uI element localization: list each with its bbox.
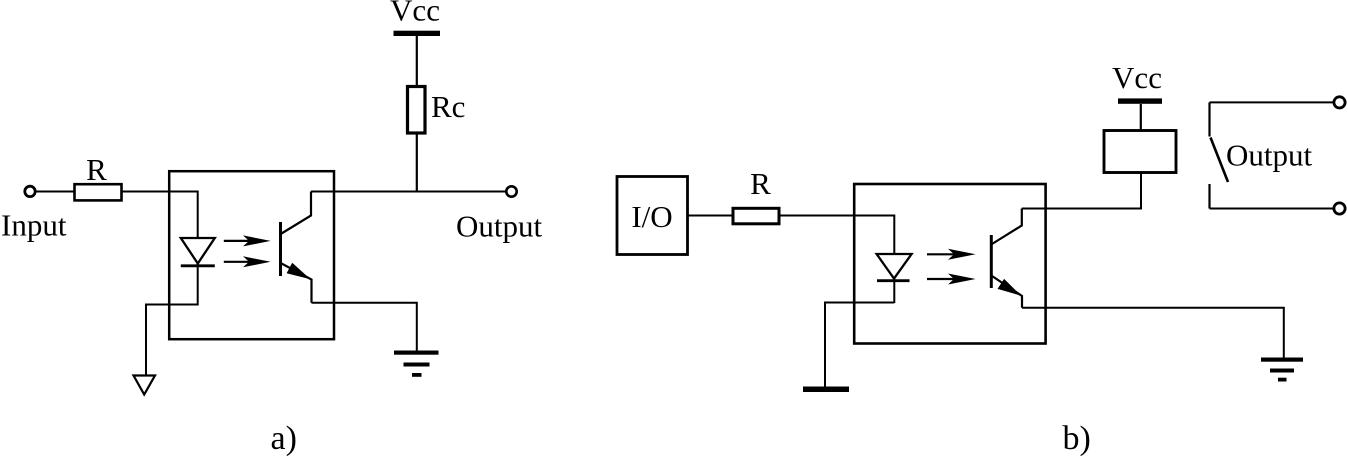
optocoupler U1 package box (circuit a) — [169, 171, 334, 339]
power rail Vcc bar (circuit a) — [394, 31, 441, 36]
power rail Vcc bar (circuit b) — [1118, 98, 1162, 103]
phototransistor Q1 (circuit a) — [281, 192, 312, 303]
phototransistor Q2 (circuit b) — [991, 209, 1022, 308]
wire: Vcc bar to relay coil — [1140, 104, 1142, 131]
svg-text:R: R — [86, 152, 107, 187]
wire: box entry to LED anode (circuit a) — [169, 192, 198, 306]
ground: thick bar ground (circuit b input side) — [803, 387, 849, 393]
svg-text:Vcc: Vcc — [1112, 60, 1162, 95]
ground: three-bar earth symbol (circuit a) — [394, 351, 439, 377]
resistor Rc — [408, 87, 426, 134]
svg-text:b): b) — [1063, 420, 1091, 456]
terminal: output node bottom (circuit b) — [1334, 203, 1345, 214]
svg-text:Output: Output — [456, 209, 543, 244]
wire: emitter to ground (circuit b) — [1022, 308, 1284, 358]
svg-text:Input: Input — [1, 208, 67, 243]
light arrow 2 (circuit a) — [224, 256, 271, 267]
wire: input terminal to resistor R — [36, 191, 74, 193]
wire: LED cathode left and down to ground (circuit b) — [825, 303, 894, 387]
relay coil box K1 — [1104, 131, 1176, 173]
wire: emitter to ground (circuit a) — [312, 303, 417, 352]
svg-text:I/O: I/O — [631, 199, 672, 234]
LED D1 (circuit a) — [181, 238, 215, 266]
relay switch contact (circuit b) — [1210, 102, 1229, 208]
svg-text:Rc: Rc — [431, 89, 465, 124]
wire: collector to output node (circuit a) — [311, 191, 506, 193]
light arrow 1 (circuit a) — [224, 235, 271, 246]
wire: I/O box to resistor R (circuit b) — [688, 215, 733, 217]
resistor R (circuit a) — [75, 184, 122, 200]
LED D2 (circuit b) — [877, 254, 912, 281]
svg-text:Vcc: Vcc — [390, 0, 440, 28]
wire: Vcc bar to resistor Rc — [416, 36, 418, 85]
svg-text:R: R — [750, 166, 771, 201]
wire: LED cathode down and left to ground lead (circuit a) — [146, 305, 198, 376]
terminal: Output node circle (circuit a) — [506, 186, 516, 196]
wire: resistor R to LED anode (circuit b) — [779, 216, 894, 304]
optocoupler U2 package box (circuit b) — [854, 184, 1045, 344]
terminal: Input node circle — [25, 186, 35, 196]
ground: open triangle ground symbol (circuit a input side) — [134, 376, 156, 395]
ground: three-bar earth symbol (circuit b) — [1261, 358, 1303, 382]
wire: switch top to terminal (circuit b) — [1210, 101, 1334, 103]
terminal: output node top (circuit b) — [1334, 97, 1345, 108]
light arrow 1 (circuit b) — [927, 249, 976, 260]
wire: collector to relay coil (circuit b) — [1022, 173, 1141, 209]
wire: Rc to output wire junction — [416, 133, 418, 193]
resistor R (circuit b) — [733, 208, 779, 224]
svg-text:Output: Output — [1226, 138, 1313, 173]
I/O box (circuit b) — [617, 177, 688, 255]
wire: switch bottom to terminal (circuit b) — [1210, 208, 1334, 210]
light arrow 2 (circuit b) — [927, 274, 976, 285]
svg-text:a): a) — [271, 420, 297, 456]
wire: resistor R to optocoupler box — [122, 191, 170, 193]
